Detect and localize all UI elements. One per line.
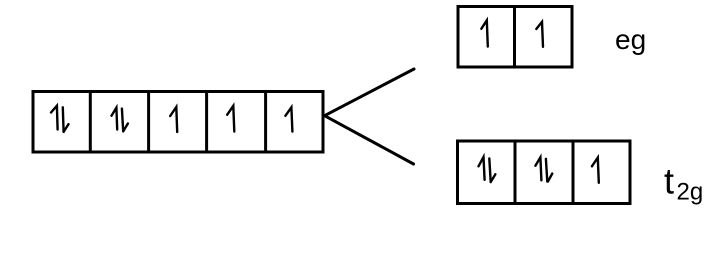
svg-text:eg: eg: [615, 24, 646, 55]
electron up t2g box3: [592, 158, 599, 183]
wire divider 3: [205, 92, 208, 153]
electron up eg box1: [481, 20, 488, 46]
wire t2g divider 1: [514, 141, 517, 204]
eg level boxes: [458, 7, 572, 68]
electron pair box1: [51, 106, 69, 132]
electron up eg box2: [536, 22, 543, 47]
t2g level boxes: [458, 141, 631, 204]
splitting line lower: [326, 116, 414, 164]
degenerate d-orbital row (5 boxes): [33, 92, 323, 153]
electron up box4: [227, 106, 234, 132]
wire divider 1: [89, 92, 92, 153]
svg-text:2g: 2g: [677, 179, 704, 206]
electron up box5: [285, 107, 292, 131]
wire divider 2: [147, 92, 150, 153]
wire t2g divider 2: [572, 141, 575, 204]
electron pair t2g box1: [479, 157, 496, 182]
electron up box3: [170, 107, 177, 132]
electron pair box2: [112, 108, 128, 132]
svg-text:t: t: [664, 161, 674, 202]
electron pair t2g box2: [535, 157, 552, 181]
wire divider 4: [264, 92, 267, 153]
wire eg divider: [513, 7, 516, 68]
splitting line upper: [326, 69, 415, 115]
